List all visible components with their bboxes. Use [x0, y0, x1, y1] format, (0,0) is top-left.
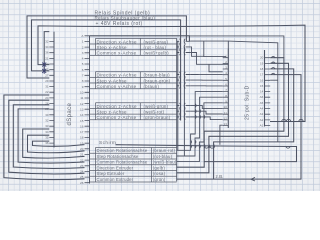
connector pair symbol row y=85.8	[177, 83, 191, 88]
wire P1 pin A over group-1 box to mesh	[90, 36, 190, 42]
wire z-direction row to J2 pin 10	[190, 106, 223, 109]
table group 2 y-Achse box	[90, 72, 177, 89]
crossover bumps on +48V to A1 segment	[282, 119, 286, 121]
connector pair symbol row y=41.3	[177, 39, 191, 44]
wire relais spindel: P2 pin to top line 1	[27, 16, 186, 78]
wire x-common branch to J2 pin 3	[209, 64, 223, 72]
wire bottom bus 5: P2 pin y=129.0 to P1 row y=156.4	[23, 129, 85, 158]
riser vertical through symbol column left	[177, 41, 179, 150]
wire z-step row to J2 pin 11	[190, 111, 223, 114]
wire schirm U-loop to common rotationsachse	[116, 145, 297, 162]
wire +48V relais: P2 pin, top line 3, right edge down to pin A1	[38, 25, 305, 121]
wire x-direction row along top to J2 shell	[190, 41, 228, 48]
connector pair symbol row y=74.5	[177, 72, 191, 77]
wire J2 right pin 17 to crossing vertical	[270, 79, 278, 81]
connector P2 dSpace column body	[53, 32, 55, 148]
wire schirm branch up to J2 pin 13	[220, 125, 223, 145]
wire y-direction row to J2 pin 4	[190, 74, 223, 76]
connector pair symbol row y=80.1	[177, 77, 191, 82]
connector pair symbol row y=46.9	[177, 44, 191, 49]
table group 3 z-Achse box	[90, 103, 177, 120]
connector pair symbol row y=111.2	[177, 109, 191, 114]
wire x-direction drop to J2 pin 1	[204, 41, 226, 57]
wire step rotationsachse up to J2 pin 8	[177, 97, 223, 156]
tables common right edge vertical	[176, 38, 178, 181]
wire y-common row to J2 pin 6	[190, 85, 223, 87]
riser vertical through symbol column right	[183, 47, 185, 156]
wire annotation arrow line to J2 right pin 17	[177, 75, 301, 180]
wire direction rotationsachse up to J2 pin 7	[177, 92, 223, 151]
wire bottom bus 2: P2 pin y=100.2 to P1 row y=173.2	[9, 100, 85, 174]
wire bottom bus 7: P2 pin y=141.1 to P1 row y=144.6	[33, 141, 85, 146]
stub wire P2 pin 32 to 36	[44, 32, 49, 73]
wire pin A extension over J2 to right drop	[189, 36, 284, 58]
twist mark X lower	[42, 68, 46, 74]
table bottom rotation/extruder box	[90, 148, 177, 183]
connector J2 left edge	[227, 49, 229, 129]
wire common extruder via right wrap to J2 right pin 18	[214, 69, 294, 179]
crossover bumps on risers at schirm crossing	[190, 144, 193, 148]
wire z-common row to J2 pin 13	[190, 117, 223, 120]
connector P1 pin ticks	[85, 36, 90, 183]
wire x-direction continues over J2 down right side	[228, 41, 277, 142]
wire x-step row jog	[190, 47, 204, 56]
connector J2 right pin ticks	[265, 58, 271, 126]
wire bottom bus 4: P2 pin y=108.9 to P1 row y=162.0	[18, 109, 84, 163]
wire bottom bus 6: P2 pin y=135.2 to P1 row y=150.8	[28, 135, 85, 153]
connector P2 pin ticks	[49, 41, 54, 143]
wire relais staubsauger: P2 pin to top line 2	[32, 20, 181, 121]
wire direction extruder via right wrap to J2 right pin 20	[177, 58, 284, 168]
connector J2 right edge	[264, 50, 266, 127]
wire y-step row to J2 pin 5	[190, 79, 223, 81]
crossover bumps after J2 right ticks	[271, 56, 275, 57]
wire common rotationsachse up to J2 pin 9	[177, 103, 223, 162]
crossover bumps on rot risers over z rows	[194, 104, 197, 108]
connector pair symbol row y=105.6	[177, 103, 191, 108]
connector pair symbol row y=52.5	[177, 50, 191, 55]
twist mark X upper	[42, 62, 46, 68]
connector P1 dSpace column body	[89, 36, 91, 184]
crossover bumps on schirm wire	[205, 146, 209, 148]
wire step extruder via right wrap to J2 right pin 19	[177, 63, 289, 173]
connector pair symbol row y=116.9	[177, 114, 191, 119]
table group 1 x-Achse box	[90, 38, 177, 55]
wire bottom bus 3: P2 pin y=104.8 to P1 row y=167.6	[13, 105, 84, 169]
arrowhead on annotation wire	[251, 177, 255, 181]
wire bottom bus 1: P2 pin y=95.0 to P1 row y=178.8	[4, 95, 85, 180]
connector J2 left pin ticks	[223, 58, 229, 126]
wire x-common row jog down	[190, 53, 228, 65]
